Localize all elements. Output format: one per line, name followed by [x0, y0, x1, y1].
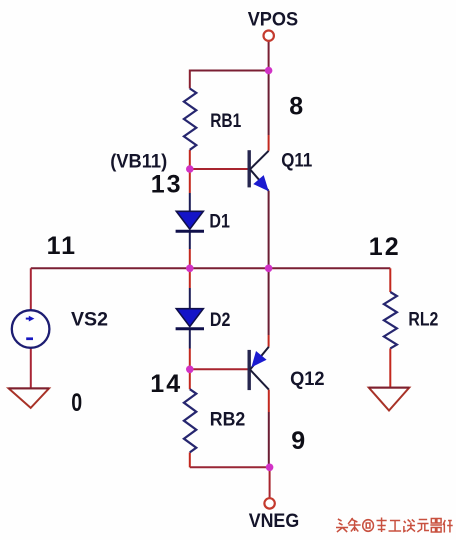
svg-text:9: 9	[291, 427, 307, 455]
svg-text:0: 0	[71, 389, 84, 417]
svg-text:8: 8	[289, 92, 305, 120]
svg-text:11: 11	[47, 232, 77, 260]
svg-text:D1: D1	[209, 211, 230, 232]
svg-text:RL2: RL2	[408, 310, 438, 331]
svg-text:VPOS: VPOS	[248, 9, 299, 30]
svg-text:RB1: RB1	[210, 111, 241, 132]
svg-text:Q12: Q12	[290, 369, 325, 390]
svg-text:14: 14	[150, 370, 182, 398]
svg-text:(VB11): (VB11)	[110, 152, 167, 173]
svg-text:D2: D2	[210, 310, 231, 331]
svg-text:12: 12	[369, 233, 401, 261]
svg-text:Q11: Q11	[281, 150, 312, 171]
svg-text:RB2: RB2	[210, 410, 246, 431]
svg-text:13: 13	[151, 171, 183, 199]
svg-text:VS2: VS2	[71, 309, 108, 330]
svg-text:VNEG: VNEG	[249, 511, 300, 532]
